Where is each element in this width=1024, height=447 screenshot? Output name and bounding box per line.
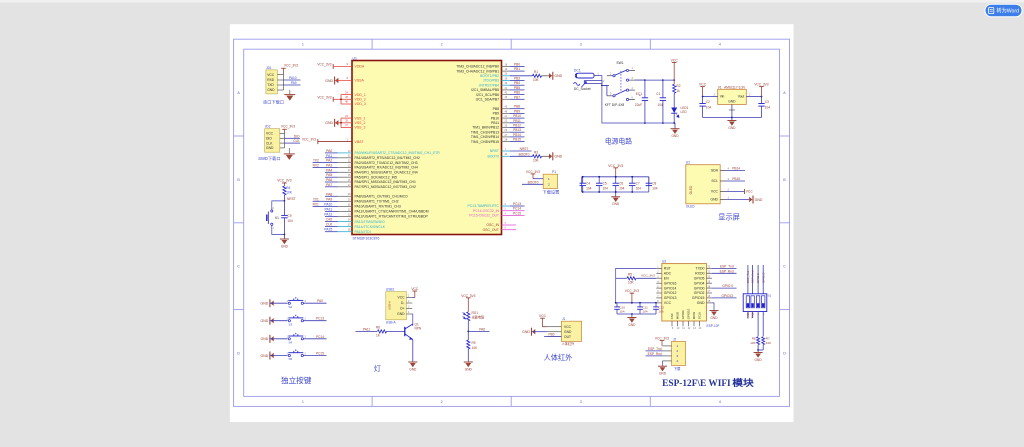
wire and net label DIO to mcu	[325, 221, 338, 223]
svg-text:S5: S5	[289, 357, 293, 361]
svg-text:GND: GND	[554, 155, 562, 159]
module U3 ESP-12F body	[662, 264, 707, 321]
svg-text:STM32F103C8T6: STM32F103C8T6	[353, 236, 380, 240]
wire and net label PA2 to mcu	[325, 162, 338, 164]
svg-text:C7: C7	[636, 182, 640, 186]
wire reset node to switch K1	[272, 201, 285, 210]
svg-text:PB14: PB14	[732, 167, 740, 171]
svg-text:CLK: CLK	[266, 141, 273, 145]
wire JD2 DIO net	[285, 137, 301, 139]
svg-text:104: 104	[620, 310, 625, 314]
svg-text:模块: 模块	[732, 377, 754, 388]
svg-text:2: 2	[441, 400, 443, 404]
svg-text:U3: U3	[662, 260, 666, 264]
svg-text:PA3/USART2_RX/ADC12_IN3/TIM2_C: PA3/USART2_RX/ADC12_IN3/TIM2_CH4	[355, 166, 418, 170]
wire U3 GND to ground	[712, 303, 714, 310]
transistor Q1 NPN	[404, 327, 406, 336]
mcu pin PC13-TAMPER-RTC	[502, 205, 511, 207]
wire SW1 pole to DC; SW1 throw to rail	[602, 84, 607, 86]
svg-text:GND: GND	[710, 198, 718, 202]
mcu pin BOOT0 with resistor R3 to GND	[502, 155, 511, 157]
svg-text:PC14: PC14	[316, 335, 324, 339]
wire and net label CLK to mcu	[325, 226, 338, 228]
wire and net label PA8 to mcu	[325, 195, 338, 197]
svg-text:GND: GND	[554, 74, 562, 78]
mcu right pin PB15	[502, 141, 511, 143]
svg-text:10K: 10K	[766, 341, 771, 345]
mcu right pin PB4	[502, 84, 511, 86]
svg-text:VSS_1: VSS_1	[355, 116, 366, 120]
svg-text:人体红外: 人体红外	[544, 353, 573, 362]
svg-text:VBAT: VBAT	[355, 140, 365, 144]
mcu right pin PB11	[502, 122, 511, 124]
ground at R3	[552, 152, 554, 160]
svg-text:PA10: PA10	[289, 76, 297, 80]
svg-text:PC15: PC15	[513, 211, 521, 215]
mcu pin PC14-OSC32_IN	[502, 210, 511, 212]
connector J1 body	[561, 321, 581, 341]
svg-text:GND: GND	[261, 319, 269, 323]
mcu right pin PB9	[502, 112, 511, 114]
svg-text:10K: 10K	[286, 191, 293, 195]
svg-text:R9: R9	[472, 341, 476, 345]
header J2 body	[672, 341, 686, 365]
svg-text:106: 106	[659, 310, 664, 314]
svg-text:下载: 下载	[674, 366, 681, 371]
svg-text:3: 3	[580, 43, 582, 47]
svg-text:I2C1_SMBAL/PB5: I2C1_SMBAL/PB5	[471, 88, 499, 92]
svg-text:RXD0: RXD0	[695, 272, 704, 276]
svg-text:PA2/USART2_TX/ADC12_IN2/TIM2_C: PA2/USART2_TX/ADC12_IN2/TIM2_CH3	[355, 161, 418, 165]
wire and net label PA4 to mcu	[325, 171, 338, 173]
svg-text:GND: GND	[409, 367, 417, 371]
svg-text:GND: GND	[671, 134, 679, 138]
svg-text:PA15/JTDI: PA15/JTDI	[355, 230, 371, 234]
svg-text:RX1: RX1	[313, 202, 319, 206]
svg-text:GPIO0: GPIO0	[694, 286, 705, 290]
wire ESP VCC rail	[616, 302, 657, 304]
svg-text:P1: P1	[552, 170, 556, 174]
mcu right pin BOOT1/PB2	[502, 75, 511, 77]
svg-text:PB0: PB0	[514, 62, 520, 66]
net label PB0 at J1 OUT	[544, 336, 561, 338]
regulator V1 AMS1117-3.3V body	[718, 89, 747, 104]
wire and net label PA3 to mcu	[325, 167, 338, 169]
svg-text:GND: GND	[659, 372, 667, 376]
svg-text:10K: 10K	[533, 78, 540, 82]
svg-text:GPIO12: GPIO12	[664, 291, 677, 295]
svg-text:SCLK: SCLK	[698, 312, 702, 320]
svg-text:PC13: PC13	[513, 202, 521, 206]
svg-text:TXD1: TXD1	[751, 311, 755, 319]
svg-text:10K: 10K	[472, 346, 479, 350]
svg-text:GND: GND	[755, 358, 763, 362]
svg-text:VDD_2: VDD_2	[355, 98, 366, 102]
wire and net label PA5 to mcu	[325, 176, 338, 178]
net label RX1 on PA10 wire	[313, 205, 325, 207]
schematic sheet	[230, 24, 794, 422]
svg-text:VCC_3V3: VCC_3V3	[317, 95, 331, 99]
svg-text:2: 2	[441, 43, 443, 47]
svg-text:PA0: PA0	[326, 149, 332, 153]
wire RG1 to node PA6	[467, 321, 469, 340]
svg-text:独立按键: 独立按键	[281, 375, 312, 385]
svg-text:PB6: PB6	[514, 91, 520, 95]
svg-text:GND: GND	[465, 367, 473, 371]
svg-text:S1: S1	[768, 294, 772, 298]
svg-text:USB1: USB1	[386, 288, 395, 292]
ground at button S5	[269, 352, 271, 360]
capacitor C7 104	[631, 177, 633, 183]
svg-text:MISO: MISO	[676, 311, 680, 319]
net label TX2 on PA2 wire	[313, 162, 325, 164]
svg-text:BOOT1/PB2: BOOT1/PB2	[480, 74, 499, 78]
svg-text:D+: D+	[400, 307, 404, 311]
svg-text:CLK: CLK	[293, 139, 300, 143]
ground at R1	[552, 72, 554, 80]
SW1 contact 6	[626, 98, 628, 100]
mcu right pin PB1	[502, 70, 511, 72]
svg-text:3: 3	[580, 400, 582, 404]
S1 element 3	[756, 296, 759, 308]
svg-text:VCC_3V3: VCC_3V3	[754, 83, 768, 87]
svg-text:104: 104	[603, 187, 609, 191]
svg-text:22uF: 22uF	[635, 103, 642, 107]
svg-text:ADC: ADC	[664, 272, 672, 276]
svg-text:VCC_3V3: VCC_3V3	[608, 164, 623, 168]
ESP caps bottom rail to ground	[617, 313, 656, 315]
wire P1 pin1 to VCC_3V3	[533, 178, 543, 180]
svg-text:BOOT0: BOOT0	[528, 180, 539, 184]
svg-text:VDDA: VDDA	[355, 65, 365, 69]
svg-text:RXD1: RXD1	[746, 310, 750, 318]
svg-text:10K: 10K	[750, 341, 755, 345]
svg-text:GPIO2: GPIO2	[694, 291, 705, 295]
svg-text:DIO: DIO	[326, 218, 332, 222]
svg-text:PB4: PB4	[514, 81, 520, 85]
svg-text:RXD: RXD	[267, 78, 275, 82]
svg-text:OSC_IN: OSC_IN	[486, 223, 499, 227]
svg-text:PA9: PA9	[291, 81, 297, 85]
wire Q1 emitter to ground	[412, 340, 414, 362]
svg-text:PC13: PC13	[316, 317, 324, 321]
svg-text:C6: C6	[619, 182, 623, 186]
svg-text:PB5: PB5	[514, 86, 520, 90]
svg-text:PB14: PB14	[513, 133, 521, 137]
wire J2 pin4 to ground	[662, 361, 664, 366]
svg-text:S3: S3	[289, 322, 293, 326]
svg-text:GND: GND	[325, 79, 333, 83]
display U2 body	[686, 165, 720, 204]
mcu right pin PB5	[502, 89, 511, 91]
svg-text:10K: 10K	[628, 280, 635, 284]
svg-text:VDD_3: VDD_3	[355, 102, 366, 106]
svg-text:U2: U2	[686, 161, 690, 165]
svg-text:C2: C2	[706, 100, 710, 104]
svg-text:D-: D-	[401, 301, 404, 305]
frame column ticks	[371, 39, 373, 49]
svg-text:LED: LED	[681, 110, 688, 114]
mcu pin NRST with net label	[502, 150, 511, 152]
svg-text:4: 4	[719, 400, 721, 404]
DC jack switch squiggle	[574, 83, 580, 86]
svg-text:VCC: VCC	[539, 314, 547, 318]
svg-text:PC14-OSC32_IN: PC14-OSC32_IN	[473, 209, 500, 213]
svg-text:VCC_3V3: VCC_3V3	[277, 179, 291, 183]
capacitor EC1 22uF electrolytic	[644, 80, 646, 98]
svg-text:TIM1_CH2N/PB14: TIM1_CH2N/PB14	[471, 135, 499, 139]
net label ESP_Txd at U3 TXD0	[712, 267, 737, 269]
svg-text:C9: C9	[287, 214, 291, 218]
svg-text:PA5/SPI1_SCK/ADC12_IN5: PA5/SPI1_SCK/ADC12_IN5	[355, 175, 397, 179]
SW1 contact 5-4 bottom	[607, 95, 613, 97]
svg-text:PA4: PA4	[326, 168, 332, 172]
svg-text:PB8: PB8	[514, 105, 520, 109]
svg-text:DC_Socket: DC_Socket	[574, 87, 591, 91]
svg-text:VCC_3V3: VCC_3V3	[625, 289, 639, 293]
svg-text:GND: GND	[261, 302, 269, 306]
svg-text:S4: S4	[289, 340, 293, 344]
mcu right pin PB12	[502, 127, 511, 129]
svg-text:PA1: PA1	[326, 154, 332, 158]
svg-text:光敏电阻: 光敏电阻	[472, 315, 486, 320]
svg-text:VCC_3V3: VCC_3V3	[641, 274, 655, 278]
svg-text:串口下载口: 串口下载口	[263, 99, 284, 106]
ground below decoupling rail	[615, 192, 617, 197]
svg-text:VSSA: VSSA	[355, 79, 365, 83]
ground at button S2	[269, 299, 271, 307]
svg-text:PA10/USART1_RX/TIM1_CH3: PA10/USART1_RX/TIM1_CH3	[355, 205, 401, 209]
net label GPIO 0 at U3	[712, 287, 737, 289]
svg-text:VCC_3V3: VCC_3V3	[284, 64, 298, 68]
svg-text:PA9/USART1_TX/TIM1_CH2: PA9/USART1_TX/TIM1_CH2	[355, 200, 399, 204]
svg-text:USB-A: USB-A	[386, 321, 397, 325]
svg-text:GND: GND	[728, 126, 736, 130]
svg-text:PA3: PA3	[326, 164, 332, 168]
svg-text:DIO: DIO	[266, 137, 272, 141]
resistor R2 1k	[673, 84, 676, 93]
svg-text:TIM1_CH3N/PB15: TIM1_CH3N/PB15	[471, 140, 499, 144]
svg-text:GND: GND	[261, 337, 269, 341]
svg-text:EC1: EC1	[636, 92, 642, 96]
svg-text:SW1: SW1	[616, 61, 623, 65]
wire Vout to VCC_3V3	[746, 96, 761, 98]
svg-text:GPIO9: GPIO9	[681, 310, 685, 319]
svg-text:D: D	[237, 351, 240, 355]
resistor R5 10K on EN	[616, 277, 627, 279]
svg-text:VCC: VCC	[664, 301, 672, 305]
svg-text:BOOT0: BOOT0	[519, 152, 530, 156]
svg-text:GND: GND	[564, 330, 572, 334]
SW1 contact 3 mid	[626, 79, 628, 81]
svg-text:GPIO5: GPIO5	[694, 276, 705, 280]
SW1 gang dashed link	[620, 71, 622, 93]
svg-text:PA12: PA12	[324, 213, 332, 217]
capacitor C5 104	[598, 177, 600, 183]
svg-text:PA2: PA2	[326, 159, 332, 163]
svg-text:Vin: Vin	[720, 95, 725, 99]
svg-text:R3: R3	[534, 151, 538, 155]
wire R6 to Q1 base	[387, 330, 405, 332]
svg-text:TXD: TXD	[267, 83, 274, 87]
svg-text:VCC: VCC	[699, 83, 707, 87]
capacitor C10 104	[616, 303, 618, 307]
svg-text:GND: GND	[697, 301, 705, 305]
svg-text:VCC_3V3: VCC_3V3	[317, 62, 331, 66]
svg-text:PA6: PA6	[479, 327, 485, 331]
wire and net label PA11 to mcu	[325, 211, 338, 213]
connector USB1 body	[386, 292, 407, 320]
capacitor C9 104	[283, 201, 285, 216]
ground below JD2	[288, 148, 290, 154]
svg-text:GND: GND	[710, 316, 718, 320]
mcu pin OSC_IN	[502, 224, 517, 226]
wire VCC to Vin	[703, 96, 718, 98]
net label TX1 on PA9 wire	[313, 200, 325, 202]
svg-text:VCC_3V3: VCC_3V3	[655, 336, 669, 340]
wire button S3 to net PC13	[303, 320, 326, 322]
wire and net label PA7 to mcu	[325, 186, 338, 188]
wire DC out down-right to bottom rail	[602, 85, 645, 123]
svg-text:PC15-OSC32_OUT: PC15-OSC32_OUT	[469, 214, 499, 218]
svg-text:PB9: PB9	[493, 112, 500, 116]
mcu U1 STM32F103C8T6 body	[352, 61, 502, 235]
svg-text:DIO: DIO	[294, 134, 300, 138]
capacitor C2 104 at Vin	[702, 97, 704, 104]
resistor R1 10K on BOOT1/PB2 to GND	[510, 75, 533, 77]
svg-text:TIM1_BKIN/PB12: TIM1_BKIN/PB12	[472, 126, 499, 130]
svg-text:1: 1	[302, 400, 304, 404]
svg-text:GPIO16: GPIO16	[664, 281, 677, 285]
DC jack pin 1 wire	[594, 76, 602, 86]
svg-text:GPIO14: GPIO14	[664, 286, 677, 290]
svg-text:人体红外: 人体红外	[562, 341, 576, 346]
pins VDD_1 VDD_2 VDD_3 with VCC_3V3 flag	[341, 94, 352, 96]
ground at U3 GND	[710, 310, 719, 312]
svg-text:PB11: PB11	[513, 119, 521, 123]
wire and net label PA0 to mcu	[325, 152, 338, 154]
svg-text:GND: GND	[522, 330, 530, 334]
svg-text:PB9: PB9	[514, 109, 520, 113]
ground below R9	[464, 361, 473, 363]
wire P1 pin2 BOOT0	[522, 183, 543, 185]
resistor R3 10K	[533, 155, 542, 158]
wire JD1 VCC to VCC_3V3 flag	[283, 68, 285, 74]
svg-text:PA14/JTCK/SWCLK: PA14/JTCK/SWCLK	[355, 225, 386, 229]
wire and net label PA15 to mcu	[325, 231, 338, 233]
ground below R8 R7	[754, 352, 763, 354]
resistor R4 10K	[283, 186, 286, 195]
net label PA6	[468, 330, 489, 332]
ground at button S4	[269, 335, 271, 343]
svg-text:PB15: PB15	[513, 138, 521, 142]
wire JD1 RXD net PA10	[284, 79, 301, 81]
svg-text:TIM3_CH3/ADC12_IN8/PB0: TIM3_CH3/ADC12_IN8/PB0	[456, 65, 499, 69]
svg-text:I2C1_SCL/PB6: I2C1_SCL/PB6	[476, 93, 499, 97]
svg-text:TX2: TX2	[313, 159, 319, 163]
svg-text:PA8/USART1_CK/TIM1_CH1/MCO: PA8/USART1_CK/TIM1_CH1/MCO	[355, 195, 409, 199]
ground below regulator	[731, 118, 733, 121]
svg-text:PA5: PA5	[326, 173, 332, 177]
net label ESP_Rxd at J2	[646, 355, 663, 357]
svg-text:VCC: VCC	[267, 73, 275, 77]
svg-text:VCC: VCC	[266, 132, 274, 136]
svg-text:ESP_Txd: ESP_Txd	[720, 264, 734, 268]
Word export button	[985, 4, 1022, 17]
mcu right pin PB3	[502, 80, 511, 82]
net label PA11	[356, 330, 378, 332]
regulator ground rail	[703, 117, 762, 119]
svg-text:C5: C5	[603, 182, 607, 186]
svg-text:NRST: NRST	[520, 147, 529, 151]
svg-text:R4: R4	[286, 186, 290, 190]
svg-text:PC15: PC15	[316, 352, 324, 356]
svg-text:GND: GND	[261, 354, 269, 358]
wire and net label PA1 to mcu	[325, 157, 338, 159]
wire and net label PA12 to mcu	[325, 216, 338, 218]
svg-text:NRST: NRST	[287, 197, 296, 201]
wire K1 to bottom rail	[272, 225, 285, 234]
mcu right pin PB0	[502, 65, 511, 67]
svg-text:RST: RST	[664, 267, 672, 271]
svg-text:PC14: PC14	[513, 207, 521, 211]
svg-text:VCC: VCC	[411, 287, 419, 291]
svg-text:PB11: PB11	[491, 121, 499, 125]
net label ESP_Txd at J2	[646, 350, 663, 352]
svg-text:JTDO/PB3: JTDO/PB3	[483, 79, 499, 83]
svg-text:MOSI: MOSI	[692, 312, 696, 320]
switch K1	[271, 210, 273, 212]
connector JD2 body	[265, 129, 280, 153]
mcu right pin PB7	[502, 98, 511, 100]
svg-text:VCC: VCC	[671, 59, 679, 63]
svg-text:104: 104	[287, 219, 293, 223]
svg-text:NPN: NPN	[415, 327, 422, 331]
svg-text:GND: GND	[266, 146, 274, 150]
svg-text:R2: R2	[676, 84, 680, 88]
svg-text:OSC_OUT: OSC_OUT	[483, 228, 499, 232]
svg-text:PA6: PA6	[326, 178, 332, 182]
svg-text:PA10: PA10	[324, 202, 332, 206]
SW1 contact 2-1 top	[607, 75, 613, 77]
svg-text:PA7: PA7	[326, 183, 332, 187]
capacitor C1 104	[662, 80, 664, 98]
top power rail	[635, 79, 674, 81]
svg-text:ESP-12F: ESP-12F	[707, 324, 720, 328]
mcu right pin PB8	[502, 108, 511, 110]
svg-text:VCC: VCC	[746, 190, 753, 194]
wire JD2 CLK net	[285, 142, 301, 144]
ground below JD1	[289, 90, 291, 94]
wire R9 to ground	[467, 349, 469, 362]
svg-text:C4: C4	[586, 182, 590, 186]
svg-text:104: 104	[765, 105, 771, 109]
svg-text:TIM1_CH1N/PB13: TIM1_CH1N/PB13	[471, 130, 499, 134]
svg-text:C8: C8	[652, 182, 656, 186]
svg-text:GND: GND	[397, 312, 405, 316]
ground at button S3	[269, 317, 271, 325]
capacitor C4 104	[582, 177, 584, 183]
svg-text:S2: S2	[289, 305, 293, 309]
ground below Q1	[408, 361, 417, 363]
svg-text:ESP_Txd: ESP_Txd	[648, 347, 662, 351]
svg-text:PA15: PA15	[324, 228, 332, 232]
svg-text:PB15: PB15	[732, 177, 740, 181]
svg-text:GPIO10: GPIO10	[687, 308, 691, 319]
capacitor C12 106	[655, 303, 657, 307]
svg-text:PA0: PA0	[317, 299, 323, 303]
svg-text:GND: GND	[612, 202, 620, 206]
